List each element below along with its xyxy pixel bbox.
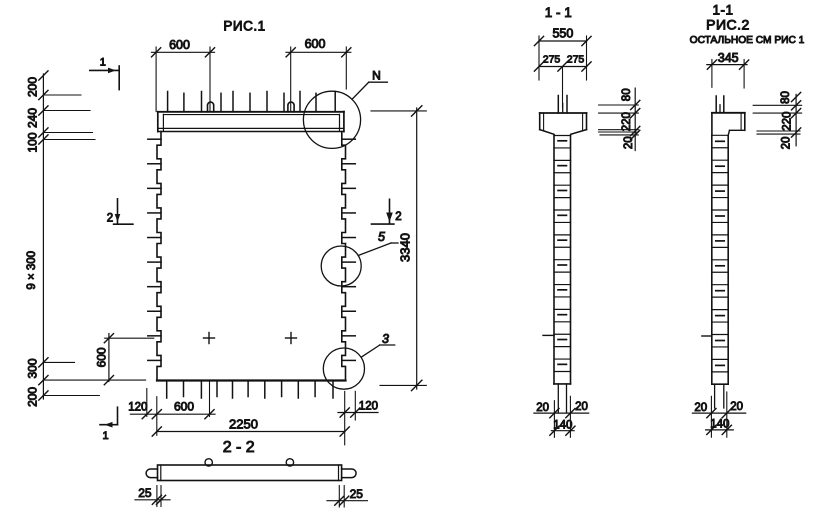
- svg-text:240: 240: [26, 108, 40, 128]
- svg-text:20: 20: [575, 401, 588, 413]
- svg-text:345: 345: [718, 51, 739, 65]
- svg-text:3340: 3340: [398, 233, 413, 262]
- svg-text:1: 1: [100, 57, 106, 69]
- svg-text:2: 2: [107, 213, 113, 225]
- section 2-2 loop left: [205, 459, 212, 466]
- svg-text:80: 80: [621, 88, 633, 101]
- svg-text:80: 80: [780, 91, 792, 104]
- stack dims section fig2: [753, 92, 801, 145]
- panel left side bar 2: [148, 163, 161, 165]
- dimension 120 bottom-right: [338, 391, 378, 444]
- svg-text:РИС.1: РИС.1: [223, 19, 265, 34]
- section marker 1 top: [90, 66, 119, 90]
- centering cross 2: [286, 333, 297, 344]
- svg-text:1-1: 1-1: [712, 3, 733, 18]
- panel right side bar 5: [342, 237, 356, 239]
- dimension 140 right: [706, 425, 734, 434]
- svg-text:5: 5: [378, 230, 385, 244]
- panel left side bar 3: [148, 187, 161, 189]
- svg-text:N: N: [372, 69, 381, 83]
- section marker 2 left: [114, 199, 133, 224]
- svg-text:25: 25: [138, 486, 152, 500]
- column head section fig2: [712, 113, 745, 136]
- bottom rebar ends: [167, 381, 333, 399]
- svg-text:600: 600: [174, 400, 194, 414]
- dimension 275 275: [534, 36, 591, 108]
- panel left side bar 7: [148, 286, 161, 288]
- svg-text:РИС.2: РИС.2: [706, 17, 750, 33]
- svg-text:200: 200: [26, 387, 40, 407]
- top cap beam: [158, 112, 344, 132]
- left dimension lines: [39, 71, 146, 400]
- dimension 345: [707, 60, 749, 89]
- dimension 550: [534, 36, 591, 45]
- svg-text:275: 275: [543, 54, 561, 66]
- section marker 1 bottom: [100, 407, 118, 427]
- column shaft section 1-1: [554, 136, 571, 384]
- panel left side bar 9: [148, 335, 161, 337]
- svg-text:2 - 2: 2 - 2: [223, 439, 255, 456]
- leader 5: [358, 243, 398, 256]
- panel left side bar 5: [148, 237, 161, 239]
- detail circle 5: [321, 246, 361, 286]
- column shaft section fig2: [712, 135, 728, 384]
- shaft tick right: [702, 335, 712, 337]
- dimension 140 middle: [550, 426, 575, 435]
- lifting loop 1: [208, 102, 214, 112]
- panel left side bar 1: [148, 138, 161, 140]
- detail circle N: [303, 91, 360, 148]
- dowel bars right: [715, 384, 724, 408]
- stack dims section 1-1: [599, 88, 640, 150]
- panel right side bar 1: [342, 138, 356, 140]
- svg-text:25: 25: [350, 487, 364, 501]
- dowel bars middle: [558, 384, 566, 412]
- svg-text:2250: 2250: [229, 417, 258, 432]
- top rebar ends: [168, 92, 336, 112]
- panel right side bar 6: [342, 261, 356, 263]
- shaft tick middle: [543, 334, 554, 336]
- dimension 25 left: [135, 486, 170, 507]
- dimension 20-20 right: [692, 392, 745, 437]
- svg-text:20: 20: [694, 402, 707, 414]
- dimension 3340: [371, 106, 426, 391]
- dimension 25 right: [327, 486, 367, 507]
- panel bottom edge: [157, 379, 346, 381]
- svg-text:140: 140: [553, 419, 572, 431]
- svg-text:20: 20: [623, 136, 635, 149]
- dimension 600 top-right: [286, 47, 351, 112]
- svg-text:ОСТАЛЬНОЕ СМ РИС 1: ОСТАЛЬНОЕ СМ РИС 1: [690, 35, 805, 46]
- panel right side bar 10: [342, 359, 356, 361]
- svg-text:600: 600: [95, 347, 109, 367]
- svg-text:275: 275: [567, 54, 585, 66]
- centering cross 1: [204, 333, 215, 344]
- dimension 120 bottom-left: [130, 381, 215, 435]
- panel right notched edge: [342, 132, 346, 381]
- panel right side bar 2: [342, 163, 356, 165]
- svg-text:120: 120: [128, 402, 147, 414]
- dimension 600 top-left: [152, 47, 215, 112]
- svg-text:20: 20: [536, 402, 549, 414]
- svg-text:9 × 300: 9 × 300: [26, 251, 38, 290]
- panel left side bar 8: [148, 310, 161, 312]
- leader 3: [361, 345, 395, 357]
- svg-text:20: 20: [781, 137, 793, 150]
- svg-text:600: 600: [305, 37, 326, 51]
- lifting loop 2: [288, 102, 294, 112]
- panel right side bar 4: [342, 212, 356, 214]
- column head section 1-1: [540, 113, 587, 135]
- section marker 2 right: [372, 199, 394, 224]
- svg-text:100: 100: [26, 132, 40, 152]
- head rebar right: [716, 96, 724, 113]
- panel left side bar 6: [148, 261, 161, 263]
- head rebar middle: [558, 96, 567, 114]
- dimension 2250: [152, 427, 349, 436]
- panel right side bar 8: [342, 310, 356, 312]
- svg-text:200: 200: [26, 77, 40, 97]
- leader N: [352, 82, 387, 99]
- section 2-2 panel body: [146, 465, 356, 481]
- svg-text:300: 300: [26, 358, 40, 378]
- panel left side bar 4: [148, 212, 161, 214]
- svg-text:1 - 1: 1 - 1: [545, 5, 572, 20]
- detail circle 3: [323, 348, 364, 389]
- svg-text:140: 140: [710, 419, 729, 431]
- svg-text:2: 2: [395, 211, 401, 223]
- svg-text:220: 220: [621, 112, 633, 131]
- panel right side bar 7: [342, 286, 356, 288]
- svg-text:3: 3: [382, 332, 389, 346]
- dimension 600 vertical: [104, 334, 154, 385]
- dimension 20-20 middle: [534, 396, 589, 437]
- svg-text:20: 20: [730, 401, 743, 413]
- svg-text:1: 1: [102, 430, 108, 442]
- svg-text:550: 550: [552, 27, 573, 41]
- svg-text:120: 120: [359, 401, 378, 413]
- panel left side bar 10: [148, 359, 161, 361]
- panel left notched edge: [157, 132, 161, 381]
- svg-text:220: 220: [782, 112, 794, 131]
- svg-text:600: 600: [169, 38, 190, 52]
- panel right side bar 3: [342, 187, 356, 189]
- section 2-2 loop right: [286, 459, 293, 466]
- panel right side bar 9: [342, 335, 356, 337]
